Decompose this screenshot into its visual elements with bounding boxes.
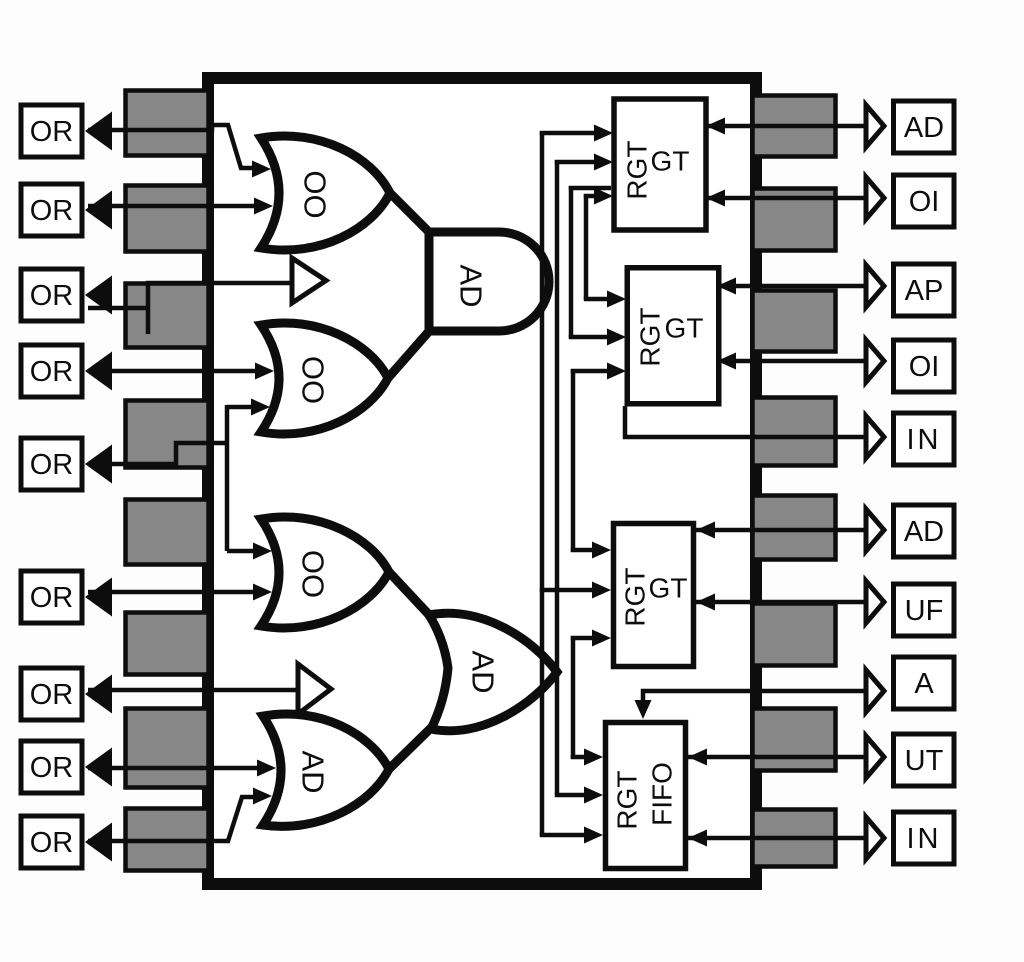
- out triangle IN2: [866, 817, 884, 859]
- port box IN: [894, 413, 955, 465]
- wire right UF: [696, 600, 866, 605]
- wire V2 to U2 in2: [555, 160, 596, 165]
- wire left 1 kinked: [88, 125, 254, 168]
- wire left 3 to buffer B1: [88, 306, 148, 311]
- arrow down into U5: [635, 700, 652, 719]
- port box OI2: [894, 340, 955, 392]
- wire V1 to U2 in1: [540, 131, 596, 136]
- svg-text:AD: AD: [454, 264, 489, 307]
- pin L7: [126, 709, 209, 788]
- out triangle A: [866, 670, 884, 712]
- wire right IN2: [688, 836, 866, 841]
- svg-text:AD: AD: [904, 112, 944, 144]
- arrow into OR6: [85, 578, 112, 617]
- svg-text:RGT: RGT: [635, 307, 666, 366]
- bus vertical V1: [540, 131, 545, 835]
- wire left 6: [88, 590, 255, 595]
- arrow into OR2: [85, 191, 112, 230]
- bus vertical V4: [584, 194, 589, 299]
- out triangle AD2: [866, 509, 884, 551]
- pin R4: [753, 398, 836, 466]
- register U4: [614, 524, 694, 667]
- arrow into OR9: [85, 823, 112, 862]
- pin R2: [753, 189, 836, 251]
- pin L3: [126, 284, 209, 348]
- arrow into U5 right b: [688, 830, 707, 847]
- wire G2 to A1: [388, 329, 431, 378]
- port box OR8: [21, 741, 82, 793]
- svg-text:OR: OR: [30, 195, 74, 227]
- port box OR4: [21, 345, 82, 397]
- svg-text:OR: OR: [30, 582, 74, 614]
- pin R7: [753, 709, 836, 771]
- svg-text:AP: AP: [905, 275, 944, 307]
- register U3: [627, 268, 719, 404]
- svg-text:AD: AD: [904, 516, 944, 548]
- or-gate G3: [261, 517, 389, 628]
- arrow into OR5: [85, 445, 112, 484]
- svg-text:GT: GT: [649, 573, 688, 604]
- arrow into OR4: [85, 352, 112, 391]
- port box OR3: [21, 269, 82, 321]
- and-gate A2 (pointed): [429, 613, 557, 731]
- or-gate G1: [261, 136, 390, 250]
- bus vertical V2: [555, 160, 560, 795]
- arrow into gate G4 in2: [253, 788, 272, 805]
- port box A: [894, 657, 955, 709]
- svg-text:OI: OI: [909, 186, 940, 218]
- wire right UT: [688, 755, 866, 760]
- svg-text:OR: OR: [30, 280, 74, 312]
- arrow into OR7: [85, 675, 112, 714]
- out triangle OI: [866, 177, 884, 219]
- port box AD: [894, 101, 955, 153]
- wire G3 to A2: [389, 572, 432, 618]
- out triangle UT: [866, 736, 884, 778]
- wire V3 to U2 (plain): [569, 186, 611, 191]
- out triangle AD: [866, 105, 884, 147]
- wire left 4: [88, 369, 257, 374]
- wire V1 to U5 in3: [540, 833, 586, 838]
- pin R6: [753, 604, 836, 666]
- wire left 7 to buffer B2: [88, 688, 298, 693]
- svg-text:IN: IN: [907, 424, 942, 456]
- port box OR9: [21, 816, 82, 868]
- svg-text:FIFO: FIFO: [647, 762, 678, 826]
- svg-text:OR: OR: [30, 752, 74, 784]
- svg-text:OR: OR: [30, 116, 74, 148]
- pin R1: [753, 96, 836, 157]
- svg-text:OO: OO: [296, 550, 331, 598]
- wire left 8: [88, 766, 259, 771]
- wire right OI2: [717, 359, 866, 364]
- wire V3 to U4 in3: [571, 636, 594, 641]
- svg-text:OR: OR: [30, 679, 74, 711]
- svg-text:GT: GT: [665, 313, 704, 344]
- arrow into gate G4 in1: [257, 760, 276, 777]
- arrow into U5 right a: [688, 749, 707, 766]
- port box IN2: [894, 812, 955, 864]
- svg-text:IN: IN: [907, 823, 942, 855]
- arrow into U3 right b: [717, 353, 736, 370]
- arrow into gate G3 in1: [253, 543, 272, 560]
- port box OR5: [21, 438, 82, 490]
- arrow into U3 right a: [717, 278, 736, 295]
- svg-text:AD: AD: [466, 650, 501, 693]
- or-gate G4: [263, 714, 389, 826]
- arrow into U4 right b: [696, 594, 715, 611]
- svg-text:RGT: RGT: [620, 567, 651, 626]
- arrow into gate G1 in1: [252, 161, 271, 178]
- wire V2 to U5 in2: [555, 793, 586, 798]
- port box OR7: [21, 668, 82, 720]
- out triangle AP: [866, 265, 884, 307]
- arrow into gate G1 in2: [254, 198, 273, 215]
- arrow into OR1: [85, 112, 112, 151]
- or-gate G2: [261, 323, 388, 434]
- arrow into gate G3 in2: [253, 584, 272, 601]
- register U5 FIFO: [606, 723, 686, 869]
- svg-text:AD: AD: [296, 750, 331, 793]
- wire right AP: [717, 284, 866, 289]
- pin L1: [126, 91, 209, 156]
- svg-text:A: A: [914, 668, 934, 700]
- wire left 9 kinked: [88, 797, 255, 841]
- svg-text:OO: OO: [298, 170, 333, 218]
- pin L4: [126, 401, 209, 468]
- port box UT: [894, 734, 955, 786]
- IC body U1: [208, 78, 756, 884]
- buffer B2: [298, 664, 331, 714]
- out triangle UF: [866, 581, 884, 623]
- wire V1 to U4 in2: [540, 588, 594, 593]
- wire V3 to U3 in3: [571, 369, 609, 374]
- svg-text:OI: OI: [909, 351, 940, 383]
- svg-text:RGT: RGT: [612, 770, 643, 829]
- wire V4 to U2 in3: [584, 194, 596, 199]
- wire left 2: [88, 204, 256, 209]
- pin L5: [126, 500, 209, 565]
- pin R5: [753, 496, 836, 560]
- port box UF: [894, 584, 955, 636]
- wire U3 bottom to IN: [625, 406, 866, 437]
- wire right AD: [706, 124, 866, 129]
- svg-text:OO: OO: [296, 356, 331, 404]
- pin L8: [126, 809, 209, 871]
- wire V3 to U5 in1: [571, 755, 586, 760]
- buffer B1: [292, 258, 326, 303]
- wire G1 to A1: [390, 193, 431, 234]
- and-gate A1: [429, 232, 549, 331]
- svg-text:OR: OR: [30, 827, 74, 859]
- pin R8: [753, 810, 836, 867]
- port box AD2: [894, 505, 955, 557]
- pin L2: [126, 186, 209, 252]
- arrow into gate G2 in1: [255, 363, 274, 380]
- svg-text:GT: GT: [651, 146, 690, 177]
- wire V4 to U3 in1: [584, 297, 609, 302]
- wire V3 to U3 in2: [569, 335, 609, 340]
- svg-text:UF: UF: [905, 595, 944, 627]
- svg-text:OR: OR: [30, 356, 74, 388]
- svg-text:UT: UT: [905, 745, 944, 777]
- arrow into OR8: [85, 748, 112, 787]
- port box OR6: [21, 571, 82, 623]
- wire net A: [643, 691, 866, 711]
- wire left 5 branch: [88, 443, 227, 464]
- port box AP: [894, 264, 955, 316]
- svg-text:OR: OR: [30, 449, 74, 481]
- out triangle OI2: [866, 340, 884, 382]
- wire G4 to A2: [389, 726, 433, 769]
- arrow into gate G2 in2: [251, 399, 270, 416]
- wire V3 to U4 in1: [571, 548, 594, 553]
- bus vertical V3: [569, 186, 574, 338]
- out triangle IN: [866, 416, 884, 458]
- wire right OI: [706, 196, 866, 201]
- port box OR2: [21, 184, 82, 236]
- wire right AD2: [696, 528, 866, 533]
- arrow into OR3: [85, 276, 112, 315]
- arrow into U2 right b: [706, 190, 725, 207]
- arrow into U2 right a: [706, 118, 725, 135]
- register U2: [614, 99, 706, 230]
- port box OR1: [21, 105, 82, 157]
- arrow into U4 right a: [696, 522, 715, 539]
- port box OI: [894, 175, 955, 227]
- pin L6: [126, 613, 209, 675]
- pin R3: [753, 291, 836, 352]
- svg-text:RGT: RGT: [622, 140, 653, 199]
